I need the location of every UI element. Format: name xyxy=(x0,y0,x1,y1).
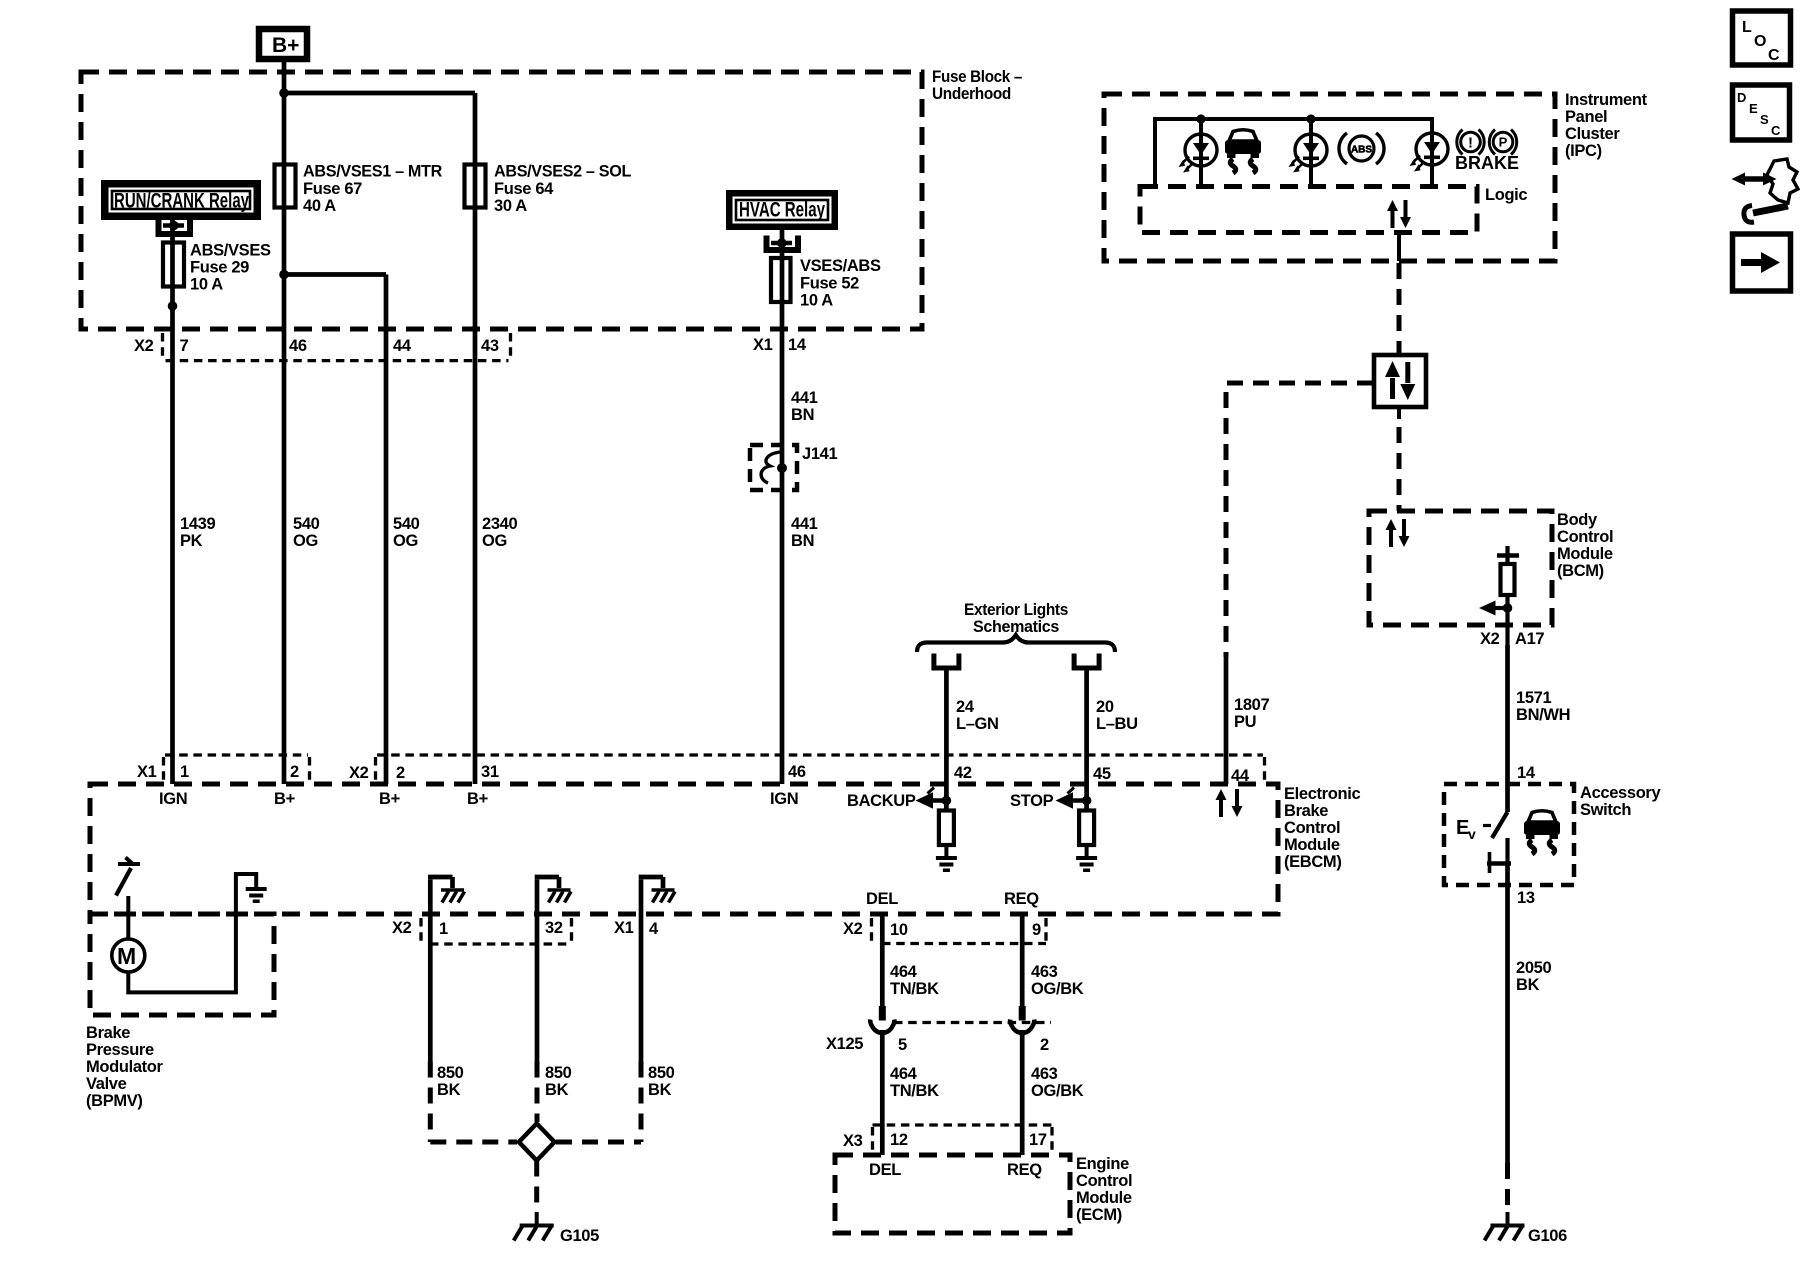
svg-text:5: 5 xyxy=(898,1036,907,1054)
ground earth symbol for motor xyxy=(246,887,267,903)
Accessory Switch dashed box xyxy=(1444,784,1574,885)
node junction below Fuse 67 xyxy=(279,270,289,280)
svg-text:Cluster: Cluster xyxy=(1565,125,1620,143)
svg-text:J141: J141 xyxy=(802,445,837,463)
svg-text:Engine: Engine xyxy=(1076,1155,1129,1173)
svg-text:13: 13 xyxy=(1517,889,1535,907)
svg-text:Brake: Brake xyxy=(1284,802,1328,820)
svg-text:2: 2 xyxy=(396,764,405,782)
LED indicator brake xyxy=(1410,133,1449,172)
svg-text:A17: A17 xyxy=(1515,630,1544,648)
EBCM dashed box xyxy=(90,784,1278,914)
node junction LED2 xyxy=(1306,114,1315,123)
svg-text:RUN/CRANK Relay: RUN/CRANK Relay xyxy=(114,190,249,213)
svg-text:OG/BK: OG/BK xyxy=(1031,980,1084,998)
svg-text:12: 12 xyxy=(890,1131,908,1149)
wire motor ground loop xyxy=(128,874,256,992)
ground G105 xyxy=(514,1212,599,1245)
svg-text:E: E xyxy=(1749,101,1758,116)
svg-text:Fuse 29: Fuse 29 xyxy=(190,259,249,277)
svg-text:BACKUP: BACKUP xyxy=(847,792,916,810)
svg-text:850: 850 xyxy=(437,1064,464,1082)
icon car skid (accessory switch) xyxy=(1524,811,1560,854)
HVAC relay terminal bracket xyxy=(767,236,799,251)
RUN/CRANK relay terminal bracket xyxy=(159,220,191,235)
svg-text:Control: Control xyxy=(1076,1172,1132,1190)
svg-text:1: 1 xyxy=(439,920,448,938)
svg-text:!: ! xyxy=(1468,135,1473,152)
svg-text:Fuse 52: Fuse 52 xyxy=(800,275,859,293)
svg-text:BK: BK xyxy=(1516,976,1540,994)
switch (pump motor relay contact) inside EBCM xyxy=(116,858,140,896)
ECM connector X3 (pins 12,17) xyxy=(843,1125,1052,1150)
LED indicator traction xyxy=(1179,134,1218,173)
svg-text:BK: BK xyxy=(545,1081,569,1099)
svg-text:1807: 1807 xyxy=(1234,696,1269,714)
svg-text:ABS/VSES2 – SOL: ABS/VSES2 – SOL xyxy=(494,163,631,181)
svg-text:46: 46 xyxy=(289,337,307,355)
svg-text:463: 463 xyxy=(1031,963,1058,981)
node junction at B+ split xyxy=(279,88,289,98)
logic serial arrows xyxy=(1387,200,1411,228)
off-page connector for wire 42 xyxy=(934,654,959,669)
wire 850 BK #3 xyxy=(639,944,644,1062)
HVAC Relay box xyxy=(726,190,838,230)
svg-text:OG: OG xyxy=(482,532,507,550)
wire B+ horizontal branch to Fuse 64 xyxy=(284,91,475,96)
off-page connector for wire 45 xyxy=(1074,654,1099,669)
icon car skid (traction) xyxy=(1225,130,1261,173)
BCM dashed box xyxy=(1369,511,1552,625)
svg-text:X1: X1 xyxy=(614,919,634,937)
svg-text:Modulator: Modulator xyxy=(86,1058,164,1076)
svg-text:P: P xyxy=(1499,135,1508,150)
svg-text:7: 7 xyxy=(180,337,189,355)
svg-text:O: O xyxy=(1754,33,1766,50)
svg-text:S: S xyxy=(1760,112,1769,127)
svg-text:Body: Body xyxy=(1557,511,1598,529)
dashed wire gateway to BCM xyxy=(1397,407,1401,419)
svg-text:Accessory: Accessory xyxy=(1580,784,1661,802)
svg-text:10: 10 xyxy=(890,921,908,939)
LED indicator ABS xyxy=(1289,134,1328,173)
svg-text:Electronic: Electronic xyxy=(1284,785,1360,803)
wire 2050 BK xyxy=(1505,866,1510,1163)
svg-text:1439: 1439 xyxy=(180,515,215,533)
svg-text:44: 44 xyxy=(393,337,412,355)
wire switch to motor xyxy=(126,896,130,940)
connector X1 pin 14 at fuse block bottom (HVAC branch) xyxy=(753,336,807,354)
svg-text:2340: 2340 xyxy=(482,515,517,533)
svg-text:1: 1 xyxy=(180,763,189,781)
svg-text:(ECM): (ECM) xyxy=(1076,1206,1122,1224)
svg-text:Underhood: Underhood xyxy=(932,85,1011,103)
svg-text:B+: B+ xyxy=(379,790,400,808)
svg-text:Pressure: Pressure xyxy=(86,1041,154,1059)
svg-text:X1: X1 xyxy=(137,763,157,781)
svg-text:X2: X2 xyxy=(843,920,863,938)
svg-text:2050: 2050 xyxy=(1516,959,1551,977)
svg-text:(EBCM): (EBCM) xyxy=(1284,853,1341,871)
ground hook wire 850 BK pin 4 xyxy=(639,877,675,944)
wire 42 BACKUP from exterior lights xyxy=(944,668,949,811)
dashed ground bus xyxy=(430,1140,517,1145)
icon right arrow box xyxy=(1733,234,1791,291)
svg-text:X2: X2 xyxy=(349,764,369,782)
svg-text:Fuse 67: Fuse 67 xyxy=(303,180,362,198)
wire resistor to ground xyxy=(944,845,948,857)
dashed wire diamond to G105 xyxy=(534,1161,539,1213)
svg-text:31: 31 xyxy=(481,763,499,781)
svg-text:B+: B+ xyxy=(272,34,299,57)
svg-text:46: 46 xyxy=(788,763,806,781)
EBCM top connector row X1 (pins 1,2) xyxy=(137,755,310,781)
EBCM bottom connector X1 (pin 4) xyxy=(614,919,659,938)
wire 45 STOP from exterior lights xyxy=(1084,668,1089,811)
fuse F29 ABS/VSES 10A xyxy=(163,243,184,287)
IPC Logic dashed box xyxy=(1140,187,1477,233)
svg-text:850: 850 xyxy=(545,1064,572,1082)
svg-text:1571: 1571 xyxy=(1516,689,1551,707)
EBCM bottom connector X2 (pins 1,32) xyxy=(392,918,572,944)
svg-text:14: 14 xyxy=(788,336,807,354)
svg-text:Control: Control xyxy=(1284,819,1340,837)
svg-text:Logic: Logic xyxy=(1485,186,1527,204)
svg-text:Module: Module xyxy=(1076,1189,1132,1207)
svg-text:40 A: 40 A xyxy=(303,197,336,215)
connector X2 pin A17 xyxy=(1480,630,1544,648)
svg-text:20: 20 xyxy=(1096,698,1114,716)
serial data gateway box xyxy=(1374,355,1426,407)
svg-text:G106: G106 xyxy=(1528,1227,1567,1245)
svg-text:Control: Control xyxy=(1557,528,1613,546)
svg-text:463: 463 xyxy=(1031,1065,1058,1083)
svg-text:9: 9 xyxy=(1032,921,1041,939)
svg-text:DEL: DEL xyxy=(869,1161,901,1179)
icon (ABS) xyxy=(1339,133,1384,164)
svg-text:ABS: ABS xyxy=(1351,145,1372,156)
EBCM top connector row X2 (pins 2,31,46,42,45,44) xyxy=(349,755,1265,785)
svg-text:OG: OG xyxy=(393,532,418,550)
svg-text:(IPC): (IPC) xyxy=(1565,142,1602,160)
ground G106 xyxy=(1485,1212,1568,1245)
brace for exterior lights xyxy=(917,635,1115,652)
svg-text:TN/BK: TN/BK xyxy=(890,980,939,998)
svg-text:B+: B+ xyxy=(467,790,488,808)
svg-text:X125: X125 xyxy=(826,1035,863,1053)
svg-text:540: 540 xyxy=(393,515,420,533)
svg-text:REQ: REQ xyxy=(1004,890,1039,908)
node junction below Fuse 29 xyxy=(168,301,178,311)
svg-text:VSES/ABS: VSES/ABS xyxy=(800,257,881,275)
BCM serial arrows xyxy=(1386,519,1410,547)
IPC dashed box xyxy=(1104,94,1555,261)
inline connector X125 xyxy=(826,1006,1051,1054)
wire 441 BN from HVAC relay through Fuse 52 to EBCM pin 46 xyxy=(780,229,785,784)
icon arrows and wrench xyxy=(1732,159,1799,222)
svg-text:24: 24 xyxy=(956,698,975,716)
fuse F67 ABS/VSES1 MTR 40A xyxy=(275,165,296,208)
svg-text:OG: OG xyxy=(293,532,318,550)
ECM dashed box xyxy=(835,1155,1070,1233)
serial data up/down arrows at EBCM pin 44 xyxy=(1216,789,1243,817)
BPMV dashed box xyxy=(90,914,274,1015)
wire 1807 PU serial data (dashed then solid) xyxy=(1226,383,1373,657)
svg-text:Instrument: Instrument xyxy=(1565,91,1648,109)
resistor (backup lamp load) xyxy=(939,811,954,846)
fuse block underhood dashed box xyxy=(81,72,922,329)
wire 540 OG battery feed from B+ through Fuse 67 to EBCM pin 2 xyxy=(282,60,287,784)
svg-text:TN/BK: TN/BK xyxy=(890,1082,939,1100)
svg-text:X1: X1 xyxy=(753,336,773,354)
BCM switch sense element xyxy=(1479,546,1519,645)
icon DESC box xyxy=(1733,85,1790,140)
svg-text:10 A: 10 A xyxy=(190,276,223,294)
svg-text:C: C xyxy=(1768,47,1780,64)
svg-text:464: 464 xyxy=(890,1065,918,1083)
svg-text:Brake: Brake xyxy=(86,1024,130,1042)
wire 464 TN/BK upper (DEL) xyxy=(880,914,885,1007)
wire 2340 OG from Fuse 64 to EBCM pin 31 xyxy=(473,93,478,784)
svg-text:X2: X2 xyxy=(392,919,412,937)
accessory switch symbol Ev xyxy=(1456,812,1511,873)
wire IPC serial out xyxy=(1397,232,1401,261)
wire 1571 BN/WH xyxy=(1505,645,1510,812)
svg-text:ABS/VSES1 – MTR: ABS/VSES1 – MTR xyxy=(303,163,442,181)
svg-text:IGN: IGN xyxy=(770,790,798,808)
B+ power symbol box xyxy=(259,29,307,59)
RUN/CRANK Relay box xyxy=(101,180,261,220)
svg-text:G105: G105 xyxy=(560,1227,599,1245)
wire 1439 PK ignition feed (RUN/CRANK relay to EBCM pin 1) xyxy=(170,220,175,784)
svg-text:L–BU: L–BU xyxy=(1096,715,1138,733)
svg-text:441: 441 xyxy=(791,515,818,533)
wire 850 BK #1 xyxy=(428,944,433,1062)
svg-text:(BCM): (BCM) xyxy=(1557,562,1604,580)
ground hook wire 850 BK pin 1 xyxy=(428,877,465,944)
icon LOC box xyxy=(1733,11,1791,65)
ground hook wire 850 BK pin 32 xyxy=(535,877,571,944)
svg-text:10 A: 10 A xyxy=(800,292,833,310)
svg-text:2: 2 xyxy=(290,763,299,781)
svg-text:441: 441 xyxy=(791,389,818,407)
svg-text:Module: Module xyxy=(1284,836,1340,854)
svg-text:C: C xyxy=(1771,123,1781,138)
svg-text:REQ: REQ xyxy=(1007,1161,1042,1179)
ground earth symbol backup xyxy=(936,856,957,872)
svg-text:Panel: Panel xyxy=(1565,108,1607,126)
svg-text:32: 32 xyxy=(545,919,563,937)
svg-text:Exterior Lights: Exterior Lights xyxy=(964,601,1068,619)
svg-text:540: 540 xyxy=(293,515,320,533)
splice J141 xyxy=(750,445,837,490)
ground earth symbol stop xyxy=(1076,856,1097,872)
svg-text:Fuse Block –: Fuse Block – xyxy=(932,68,1022,86)
EBCM bottom connector X2 (pins 10,9) xyxy=(843,918,1046,944)
svg-text:D: D xyxy=(1737,90,1746,105)
svg-text:STOP: STOP xyxy=(1010,792,1054,810)
svg-text:464: 464 xyxy=(890,963,918,981)
svg-text:42: 42 xyxy=(954,764,972,782)
svg-text:M: M xyxy=(117,943,136,969)
motor M pump xyxy=(112,939,145,972)
svg-text:14: 14 xyxy=(1517,764,1536,782)
wire 464 TN/BK lower xyxy=(880,1030,885,1155)
svg-text:HVAC Relay: HVAC Relay xyxy=(739,199,825,222)
svg-text:BN/WH: BN/WH xyxy=(1516,706,1570,724)
fuse F64 ABS/VSES2 SOL 30A xyxy=(465,165,486,208)
svg-text:PK: PK xyxy=(180,532,203,550)
IPC lamp feed bus xyxy=(1155,119,1432,186)
svg-text:Module: Module xyxy=(1557,545,1613,563)
svg-text:30 A: 30 A xyxy=(494,197,527,215)
fuse F52 VSES/ABS 10A xyxy=(771,258,791,302)
svg-text:17: 17 xyxy=(1029,1131,1047,1149)
svg-text:4: 4 xyxy=(649,920,659,938)
svg-text:X2: X2 xyxy=(134,337,154,355)
icon ((!))((P)) BRAKE xyxy=(1455,130,1519,174)
svg-text:BK: BK xyxy=(648,1081,672,1099)
svg-text:BK: BK xyxy=(437,1081,461,1099)
svg-text:BN: BN xyxy=(791,406,814,424)
wire LED2 xyxy=(1309,119,1313,186)
resistor (stop lamp load) xyxy=(1079,811,1094,846)
svg-text:850: 850 xyxy=(648,1064,675,1082)
svg-text:Fuse 64: Fuse 64 xyxy=(494,180,554,198)
connector X2 row at fuse block bottom (pins 7,46,44,43) xyxy=(134,333,511,361)
svg-text:X2: X2 xyxy=(1480,630,1500,648)
svg-text:IGN: IGN xyxy=(159,790,187,808)
svg-text:45: 45 xyxy=(1093,765,1111,783)
svg-text:DEL: DEL xyxy=(866,890,898,908)
BACKUP arrow xyxy=(847,788,951,811)
svg-text:BRAKE: BRAKE xyxy=(1455,153,1519,173)
svg-text:(BPMV): (BPMV) xyxy=(86,1092,143,1110)
svg-text:BN: BN xyxy=(791,532,814,550)
svg-text:Valve: Valve xyxy=(86,1075,127,1093)
svg-text:X3: X3 xyxy=(843,1132,863,1150)
STOP arrow xyxy=(1010,788,1091,811)
wire 540 OG second feed to EBCM pin 2 (X2) xyxy=(384,275,389,785)
wire 463 OG/BK lower xyxy=(1020,1030,1025,1155)
wire 850 BK #2 xyxy=(535,944,540,1062)
wire 463 OG/BK upper (REQ) xyxy=(1020,914,1025,1007)
svg-text:Switch: Switch xyxy=(1580,801,1631,819)
svg-text:43: 43 xyxy=(481,337,499,355)
svg-text:2: 2 xyxy=(1040,1036,1049,1054)
svg-text:OG/BK: OG/BK xyxy=(1031,1082,1084,1100)
node junction LED1 xyxy=(1196,114,1205,123)
wire branch below Fuse 67 to pin 44 xyxy=(284,272,386,277)
splice diamond xyxy=(519,1124,555,1161)
svg-text:L–GN: L–GN xyxy=(956,715,999,733)
wire LED1 xyxy=(1199,119,1203,186)
svg-text:v: v xyxy=(1468,826,1476,842)
svg-text:L: L xyxy=(1742,19,1752,36)
wire resistor to ground xyxy=(1085,845,1089,857)
svg-text:B+: B+ xyxy=(274,790,295,808)
svg-text:ABS/VSES: ABS/VSES xyxy=(190,242,271,260)
svg-text:PU: PU xyxy=(1234,713,1256,731)
